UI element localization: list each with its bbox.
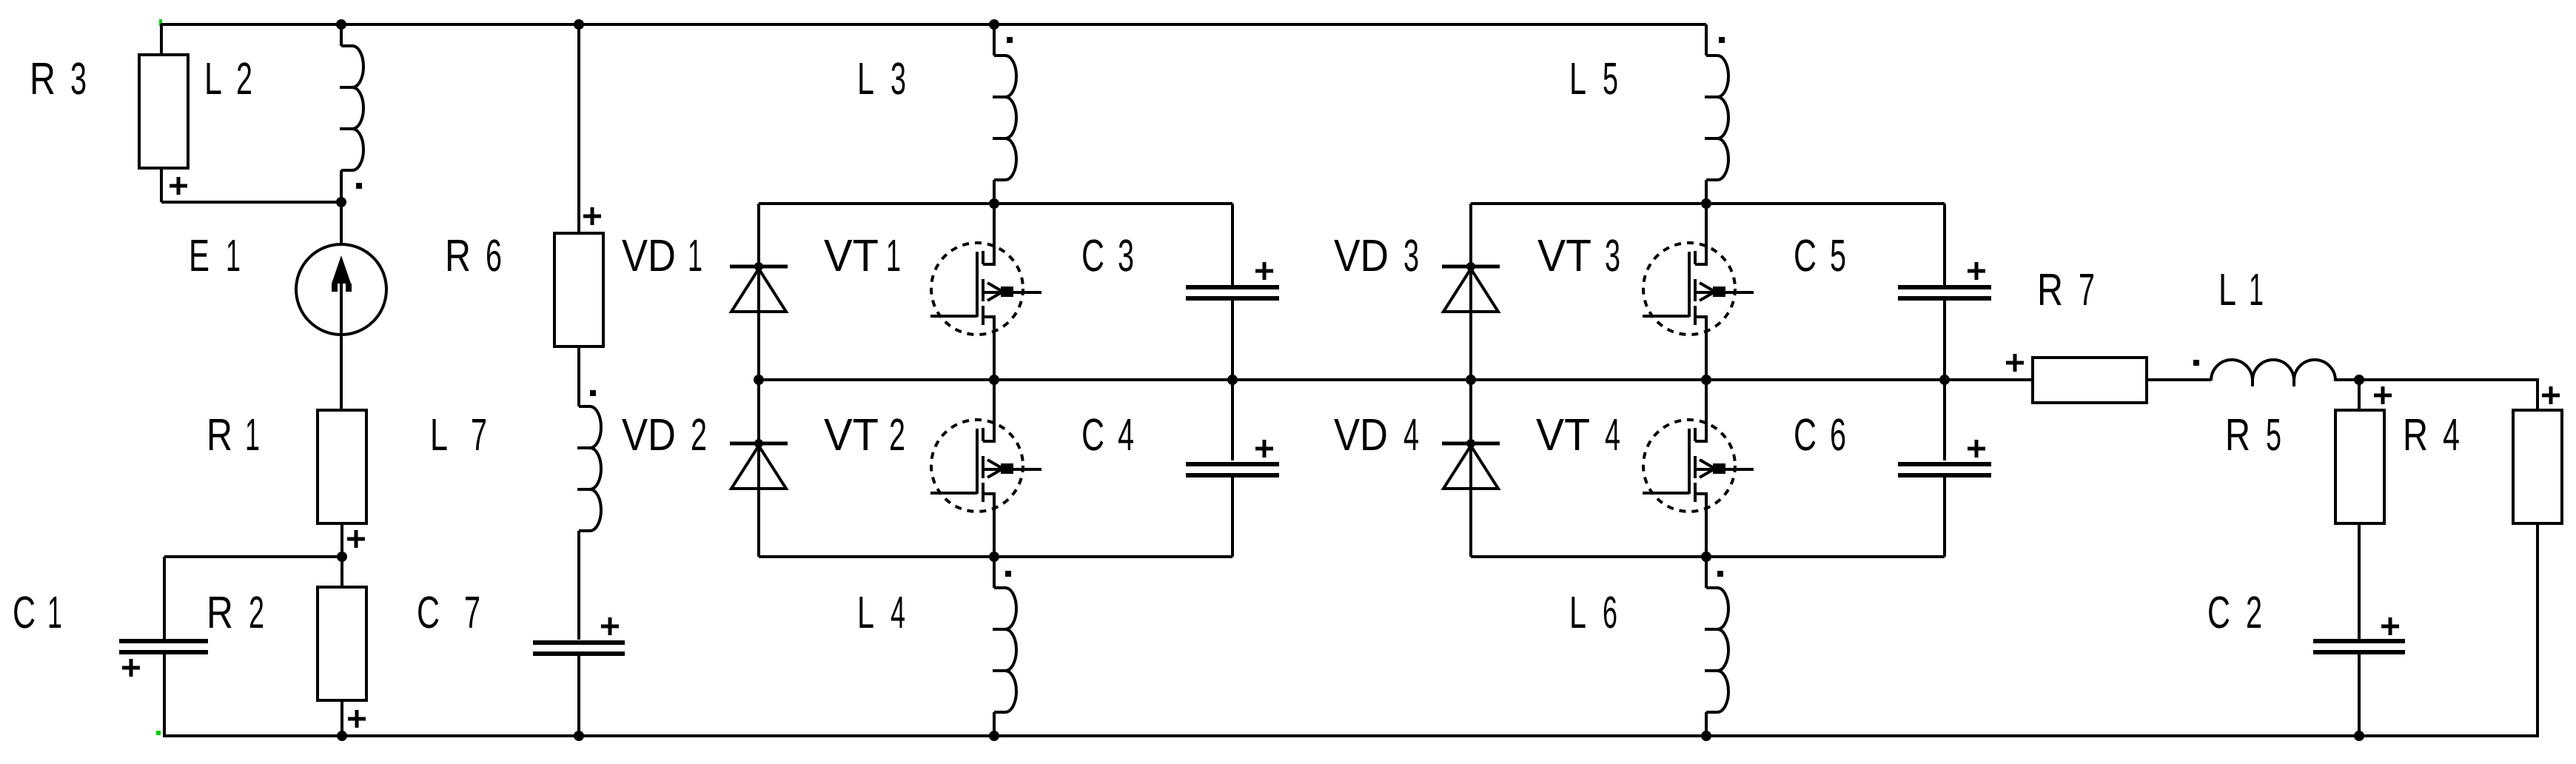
wire cell1 diode leg xyxy=(757,204,760,557)
node cell1 diode-bus xyxy=(754,375,764,385)
svg-text:R: R xyxy=(445,230,471,281)
polarity plus R7 xyxy=(2006,354,2024,372)
wire R4 bottom lead xyxy=(2536,523,2539,736)
diode VD3 xyxy=(1442,265,1500,269)
node cell1 fet top xyxy=(989,198,999,209)
wire C5 top lead xyxy=(1943,204,1946,285)
polarity plus R6 xyxy=(583,207,601,225)
svg-text:VT: VT xyxy=(1537,230,1591,281)
svg-text:C: C xyxy=(417,587,440,637)
node VD2 bar node xyxy=(754,439,763,448)
wire cell2 diode leg xyxy=(1469,204,1472,557)
label E1 xyxy=(189,230,241,281)
label L2 xyxy=(204,53,252,104)
svg-text:1: 1 xyxy=(226,230,241,281)
svg-text:C: C xyxy=(1081,230,1104,281)
node VD1 bar node xyxy=(754,262,763,271)
label L7 xyxy=(430,409,487,460)
wire C1 bottom lead xyxy=(163,654,166,736)
resistor R7 xyxy=(2033,358,2147,403)
label C6 xyxy=(1794,409,1846,460)
svg-text:6: 6 xyxy=(486,230,502,281)
svg-text:1: 1 xyxy=(886,230,901,281)
polarity plus C2 xyxy=(2381,617,2399,635)
label L4 xyxy=(857,587,905,637)
svg-text:C: C xyxy=(1794,230,1817,281)
svg-text:R: R xyxy=(207,587,233,637)
wire VT1 drain wire xyxy=(993,204,996,244)
node cell2 fet-bus xyxy=(1701,375,1711,385)
svg-text:3: 3 xyxy=(1605,230,1620,281)
svg-text:L: L xyxy=(2218,264,2236,315)
svg-text:6: 6 xyxy=(1603,587,1617,637)
source E1 xyxy=(296,244,386,335)
resistor R5 xyxy=(2335,410,2384,523)
inductor L4 top lead xyxy=(993,557,996,588)
polarity plus C7 xyxy=(601,617,619,635)
wire R1 bottom lead xyxy=(341,523,343,557)
node top rail / R6 xyxy=(574,19,584,30)
label VT2 xyxy=(824,409,905,460)
resistor R6 xyxy=(554,233,603,346)
svg-text:VD: VD xyxy=(1334,230,1389,281)
wire R5 top lead xyxy=(2358,380,2361,409)
node bottom rail / C2 xyxy=(2354,731,2364,741)
svg-text:C: C xyxy=(1794,409,1817,460)
node cell2 diode-bus xyxy=(1466,375,1476,385)
node bottom rail / L4 xyxy=(989,731,999,741)
svg-text:L: L xyxy=(1569,587,1586,637)
svg-text:C: C xyxy=(2207,587,2230,637)
label R4 xyxy=(2403,409,2460,460)
resistor R1 xyxy=(318,410,366,523)
wire node B to C1 xyxy=(164,555,342,558)
svg-text:1: 1 xyxy=(688,230,702,281)
transistor VT3 (NMOS) xyxy=(1643,243,1754,335)
label R1 xyxy=(207,409,260,460)
polarity dot L5 xyxy=(1719,37,1725,43)
node cell2 fet bottom xyxy=(1701,552,1711,562)
svg-text:5: 5 xyxy=(1603,53,1618,104)
label R5 xyxy=(2225,409,2281,460)
wire top rail xyxy=(161,23,1706,26)
wire R6 top lead xyxy=(577,24,580,232)
node VD3 bar node xyxy=(1466,262,1475,271)
svg-text:4: 4 xyxy=(1118,409,1134,460)
svg-text:2: 2 xyxy=(2246,587,2262,637)
label L5 xyxy=(1569,53,1618,104)
wire C3 bottom lead xyxy=(1231,299,1234,380)
svg-text:VD: VD xyxy=(1334,409,1388,460)
svg-text:3: 3 xyxy=(1403,230,1419,281)
label C3 xyxy=(1081,230,1134,281)
terminal tick top-left (green) xyxy=(159,19,162,26)
label R3 xyxy=(30,53,87,104)
svg-text:L: L xyxy=(857,587,874,637)
polarity plus C1 xyxy=(122,659,140,677)
svg-text:VT: VT xyxy=(1536,409,1590,460)
label R7 xyxy=(2037,264,2095,315)
svg-text:2: 2 xyxy=(691,409,707,460)
svg-text:R: R xyxy=(2225,409,2250,460)
inductor L5 bottom lead xyxy=(1705,180,1708,204)
wire R2 top lead xyxy=(341,557,343,587)
node VD4 bar node xyxy=(1466,439,1475,448)
label C1 xyxy=(13,587,62,637)
wire middle bus right of R7 xyxy=(2147,378,2211,381)
node cell2 fet top xyxy=(1701,198,1711,209)
wire C1 top lead xyxy=(163,557,166,640)
svg-text:4: 4 xyxy=(1403,409,1419,460)
polarity plus R2 xyxy=(348,710,366,728)
wire C5 bottom lead xyxy=(1943,299,1946,380)
polarity plus C4 xyxy=(1255,440,1273,458)
svg-text:4: 4 xyxy=(1605,409,1620,460)
wire R6 bottom lead xyxy=(577,346,580,406)
diode VD2 xyxy=(730,442,788,446)
label R6 xyxy=(445,230,502,281)
label C7 xyxy=(417,587,480,637)
wire VT4 drain wire xyxy=(1705,380,1708,421)
wire C4 top lead xyxy=(1231,380,1234,460)
node bottom rail / C7 xyxy=(574,731,584,741)
label C4 xyxy=(1081,409,1134,460)
transistor VT4 (NMOS) xyxy=(1643,420,1754,512)
resistor R2 xyxy=(318,587,366,700)
inductor L5 top lead xyxy=(1705,24,1708,56)
label VT3 xyxy=(1537,230,1620,281)
label R2 xyxy=(207,587,264,637)
inductor L2 winding xyxy=(341,46,363,170)
label VD2 xyxy=(622,409,707,460)
node top rail / L3 xyxy=(989,19,999,30)
polarity dot L6 xyxy=(1717,571,1723,577)
capacitor C6 xyxy=(1898,464,1991,475)
polarity dot L2 xyxy=(356,183,362,189)
inductor L6 top lead xyxy=(1705,557,1708,588)
inductor L3 bottom lead xyxy=(993,180,996,204)
svg-text:VD: VD xyxy=(622,230,676,281)
svg-text:2: 2 xyxy=(236,53,252,104)
capacitor C7 xyxy=(533,643,625,654)
capacitor C5 xyxy=(1898,287,1991,298)
inductor L4 bottom lead xyxy=(993,712,996,736)
polarity plus C5 xyxy=(1968,262,1985,280)
svg-text:3: 3 xyxy=(1118,230,1134,281)
inductor L3 top lead xyxy=(993,24,996,56)
svg-text:C: C xyxy=(13,587,36,637)
wire C4 bottom lead xyxy=(1231,477,1234,557)
polarity dot L3 xyxy=(1007,37,1013,43)
diode VD4 xyxy=(1442,442,1500,446)
label VD1 xyxy=(622,230,702,281)
wire R4 top lead xyxy=(2536,380,2539,409)
svg-text:1: 1 xyxy=(2249,264,2264,315)
label VD4 xyxy=(1334,409,1419,460)
label C2 xyxy=(2207,587,2262,637)
wire C7 bottom lead xyxy=(577,654,580,736)
svg-text:5: 5 xyxy=(2266,409,2281,460)
wire VT3 drain wire xyxy=(1705,204,1708,244)
svg-text:L: L xyxy=(857,53,874,104)
svg-text:4: 4 xyxy=(2443,409,2460,460)
svg-text:5: 5 xyxy=(1830,230,1846,281)
transistor VT1 (NMOS) xyxy=(930,243,1042,335)
svg-text:7: 7 xyxy=(2079,264,2095,315)
svg-text:3: 3 xyxy=(890,53,906,104)
svg-text:4: 4 xyxy=(890,587,905,637)
label VD3 xyxy=(1334,230,1419,281)
node cell1 fet-bus xyxy=(989,375,999,385)
inductor L4 winding xyxy=(994,588,1016,712)
polarity plus R1 xyxy=(347,530,365,548)
svg-text:VD: VD xyxy=(622,409,676,460)
inductor L6 winding xyxy=(1706,588,1728,712)
polarity dot L1 xyxy=(2193,360,2199,366)
inductor L1 winding xyxy=(2211,360,2335,381)
svg-text:L: L xyxy=(204,53,222,104)
capacitor C4 xyxy=(1186,464,1279,475)
transistor VT2 (NMOS) xyxy=(930,420,1042,512)
svg-text:7: 7 xyxy=(464,587,480,637)
polarity dot L4 xyxy=(1005,571,1011,577)
svg-text:6: 6 xyxy=(1830,409,1846,460)
terminal tick bottom-left (green) xyxy=(156,731,161,735)
svg-text:L: L xyxy=(430,409,448,460)
inductor L7 winding xyxy=(579,406,601,531)
inductor L3 winding xyxy=(994,56,1016,180)
polarity plus R3 xyxy=(170,177,187,195)
node bottom rail / R2 xyxy=(337,731,347,741)
label C5 xyxy=(1794,230,1846,281)
svg-text:3: 3 xyxy=(70,53,87,104)
inductor L6 bottom lead xyxy=(1705,712,1708,736)
svg-text:VT: VT xyxy=(824,409,879,460)
node cell2 cap-bus xyxy=(1939,375,1950,385)
wire R5 bottom lead xyxy=(2358,523,2361,640)
svg-text:7: 7 xyxy=(471,409,487,460)
label L3 xyxy=(857,53,906,104)
capacitor C2 xyxy=(2313,641,2405,652)
label L1 xyxy=(2218,264,2264,315)
wire R2 bottom lead xyxy=(341,700,343,736)
svg-text:L: L xyxy=(1569,53,1586,104)
polarity plus C3 xyxy=(1255,262,1273,280)
node top rail / L2 xyxy=(336,19,346,30)
wire C3 top lead xyxy=(1231,204,1234,285)
diode VD1 xyxy=(730,265,788,269)
node bus / R5 xyxy=(2354,375,2364,385)
svg-text:VT: VT xyxy=(824,230,879,281)
inductor L2 bottom lead xyxy=(340,170,343,202)
label VT4 xyxy=(1536,409,1620,460)
node bottom rail / L6 xyxy=(1701,731,1711,741)
wire cell2 box bottom xyxy=(1471,555,1945,558)
svg-text:R: R xyxy=(2037,264,2063,315)
wire C2 bottom lead xyxy=(2358,654,2361,736)
wire E1 bottom lead xyxy=(340,334,343,409)
wire cell1 box top xyxy=(759,202,1232,205)
node node B (R1,R2,C1) xyxy=(337,552,347,562)
wire R3 top lead xyxy=(160,24,163,54)
resistor R3 xyxy=(139,55,188,168)
svg-text:R: R xyxy=(207,409,232,460)
svg-text:2: 2 xyxy=(889,409,905,460)
inductor L2 top lead xyxy=(340,24,343,46)
node cell1 cap-bus xyxy=(1227,375,1238,385)
wire C6 top lead xyxy=(1943,380,1946,460)
node cell1 fet bottom xyxy=(989,552,999,562)
wire VT3 source wire xyxy=(1705,333,1708,380)
svg-text:E: E xyxy=(189,230,209,281)
svg-text:R: R xyxy=(2403,409,2428,460)
source E1 arrow xyxy=(332,255,351,284)
wire middle bus right of L1 xyxy=(2334,378,2539,381)
polarity dot L7 xyxy=(590,390,596,396)
wire VT4 source wire xyxy=(1705,510,1708,557)
inductor L5 winding xyxy=(1706,56,1728,180)
label VT1 xyxy=(824,230,901,281)
wire VT2 drain wire xyxy=(993,380,996,421)
wire bottom rail xyxy=(163,734,2539,737)
capacitor C3 xyxy=(1186,287,1279,298)
wire VT2 source wire xyxy=(993,510,996,557)
inductor L7 bottom lead xyxy=(577,531,580,640)
polarity plus C6 xyxy=(1968,440,1985,458)
label L6 xyxy=(1569,587,1617,637)
svg-text:2: 2 xyxy=(249,587,264,637)
wire middle bus cell1-cell2 xyxy=(759,378,2033,381)
wire R3 bottom lead xyxy=(160,167,163,202)
polarity plus R5 xyxy=(2374,386,2392,404)
wire R3 to node A xyxy=(161,201,341,204)
svg-text:R: R xyxy=(30,53,56,104)
wire cell2 box top xyxy=(1471,202,1945,205)
capacitor C1 xyxy=(119,641,208,652)
resistor R4 xyxy=(2513,410,2562,523)
wire C6 bottom lead xyxy=(1943,477,1946,557)
polarity plus R4 xyxy=(2542,386,2560,404)
svg-text:C: C xyxy=(1081,409,1104,460)
svg-text:1: 1 xyxy=(245,409,260,460)
node node A (R3,L2,E1) xyxy=(336,197,346,207)
wire VT1 source wire xyxy=(993,333,996,380)
wire E1 top lead xyxy=(340,202,343,245)
svg-text:1: 1 xyxy=(47,587,62,637)
wire cell1 box bottom xyxy=(759,555,1232,558)
